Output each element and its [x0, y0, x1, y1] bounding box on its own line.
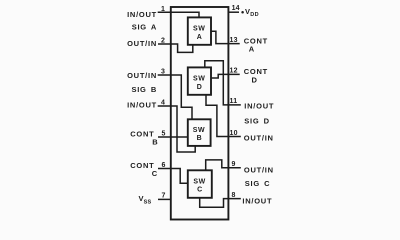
svg-text:DD: DD [250, 12, 259, 18]
svg-text:5: 5 [162, 130, 166, 137]
wire pin 1 to SW A top [158, 12, 199, 17]
svg-text:OUT/IN: OUT/IN [127, 71, 157, 80]
ground VSS pin 7 stub [158, 198, 171, 200]
svg-text:OUT/IN: OUT/IN [244, 134, 274, 143]
svg-text:4: 4 [161, 99, 165, 106]
svg-text:12: 12 [230, 68, 238, 75]
svg-text:B: B [152, 138, 158, 147]
wire SW D bottom to pin 10 [206, 95, 241, 137]
svg-text:SW: SW [193, 127, 205, 134]
svg-text:A: A [197, 34, 203, 41]
bullet node at VDD [241, 11, 244, 14]
svg-text:3: 3 [161, 68, 165, 75]
svg-text:SW: SW [193, 76, 205, 83]
svg-text:OUT/IN: OUT/IN [244, 165, 274, 174]
svg-text:C: C [152, 169, 158, 178]
svg-text:SW: SW [193, 178, 205, 185]
wire pin 4 to SW B bottom [158, 106, 196, 152]
svg-text:D: D [197, 84, 203, 91]
switch SW A [188, 17, 211, 44]
svg-text:SIG B: SIG B [131, 85, 157, 94]
svg-text:1: 1 [161, 6, 165, 13]
svg-text:D: D [252, 75, 258, 84]
power VDD pin 14 stub [228, 11, 239, 13]
svg-text:9: 9 [232, 161, 236, 168]
svg-text:11: 11 [230, 98, 238, 105]
svg-text:IN/OUT: IN/OUT [127, 100, 157, 109]
svg-text:14: 14 [232, 5, 240, 12]
switch SW C [188, 170, 212, 198]
svg-text:IN/OUT: IN/OUT [242, 196, 272, 205]
svg-text:SW: SW [193, 26, 205, 33]
svg-text:SIG A: SIG A [132, 23, 157, 32]
wire pin 6 to SW C control [158, 169, 188, 184]
svg-text:SS: SS [144, 199, 152, 205]
wire pin 3 to SW B top [158, 75, 192, 119]
wire SW A control to pin 13 [211, 31, 240, 43]
wire SW D control to pin 12 [211, 74, 240, 78]
IC package outline U1 [171, 7, 229, 220]
svg-text:C: C [197, 187, 203, 194]
wire pin 5 to SW B control [158, 136, 188, 138]
svg-text:SIG C: SIG C [245, 179, 271, 188]
switch SW D [188, 67, 211, 94]
svg-text:8: 8 [232, 192, 236, 199]
svg-text:6: 6 [162, 162, 166, 169]
wire pin 9 to SW C top [206, 160, 241, 170]
svg-text:2: 2 [161, 37, 165, 44]
switch SW B [188, 119, 211, 146]
svg-text:SIG D: SIG D [244, 116, 270, 125]
wire pin 2 to SW A bottom [158, 44, 193, 52]
svg-text:CONT: CONT [244, 36, 268, 45]
svg-text:13: 13 [230, 37, 238, 44]
svg-text:OUT/IN: OUT/IN [127, 39, 157, 48]
svg-text:IN/OUT: IN/OUT [244, 102, 274, 111]
svg-text:7: 7 [162, 193, 166, 200]
svg-text:B: B [197, 135, 203, 142]
wire SW C bottom to pin 8 [200, 198, 241, 208]
svg-text:10: 10 [230, 130, 238, 137]
wire pin 11 to SW D top [205, 61, 241, 105]
svg-text:A: A [249, 44, 255, 53]
svg-text:IN/OUT: IN/OUT [127, 10, 157, 19]
svg-text:CONT: CONT [130, 129, 154, 138]
